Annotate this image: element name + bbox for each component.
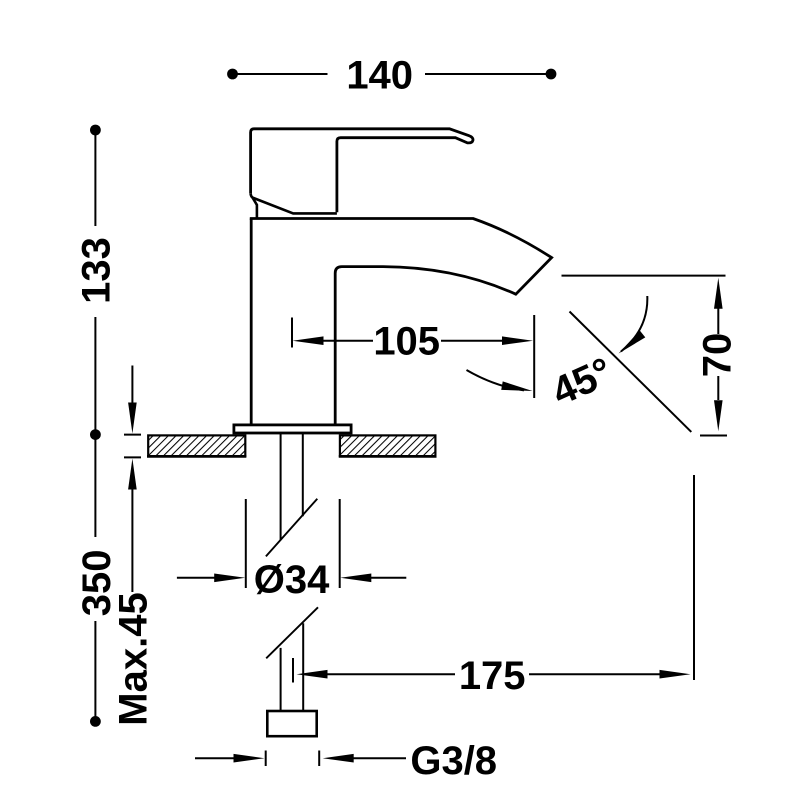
dimension Max.45	[124, 366, 141, 593]
45 degree stream line	[570, 312, 692, 432]
countertop right slab	[339, 435, 437, 456]
svg-text:133: 133	[74, 237, 118, 304]
pipe break line lower	[266, 607, 318, 658]
spout level extension line	[562, 275, 726, 277]
svg-text:G3/8: G3/8	[410, 739, 497, 783]
curved arrow to 45 line	[616, 296, 648, 357]
svg-text:105: 105	[373, 319, 440, 363]
pipe break line upper	[266, 499, 317, 557]
faucet base plate	[234, 425, 351, 433]
svg-text:175: 175	[459, 654, 526, 698]
dimension 70	[700, 308, 727, 436]
faucet handle base bevel	[251, 194, 337, 218]
curved arrow to 105 line	[467, 370, 534, 395]
faucet lever handle	[251, 129, 473, 213]
svg-text:140: 140	[346, 54, 413, 98]
dimension 105	[292, 315, 534, 398]
dimension G3/8	[195, 751, 406, 767]
countertop left slab	[147, 435, 246, 456]
dimension diameter 34	[177, 499, 406, 588]
dimension 133/350 line	[94, 130, 96, 721]
svg-text:Max.45: Max.45	[111, 592, 155, 725]
G3/8 connector block	[267, 711, 316, 736]
dimension 175	[293, 475, 694, 683]
svg-text:Ø34: Ø34	[254, 558, 330, 602]
svg-text:70: 70	[696, 333, 740, 378]
supply pipe upper segment	[281, 434, 303, 540]
supply pipe lower segment	[281, 623, 304, 710]
dimension 140	[233, 73, 552, 75]
faucet body left edge	[250, 219, 253, 425]
faucet body top and spout	[250, 219, 552, 425]
